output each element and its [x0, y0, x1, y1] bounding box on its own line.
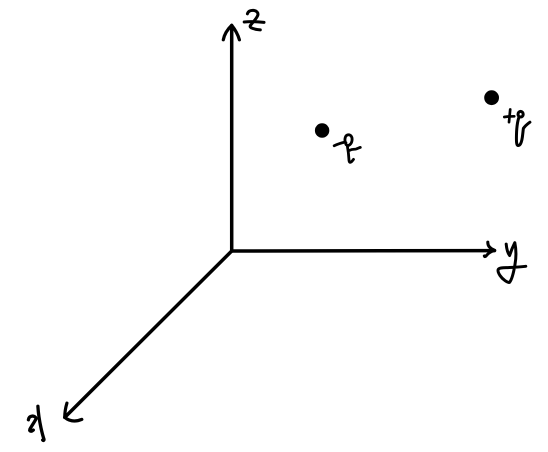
label +q letter q [516, 111, 529, 145]
axis label y [498, 243, 526, 283]
z-axis [223, 25, 239, 251]
label +q plus sign [504, 110, 514, 123]
y-axis [232, 242, 495, 257]
charge dot +q [484, 90, 499, 105]
axis label z [244, 10, 264, 30]
axis label x [28, 406, 44, 440]
charge dot -q [315, 123, 329, 137]
label -q [334, 135, 360, 163]
x-axis [65, 251, 232, 421]
